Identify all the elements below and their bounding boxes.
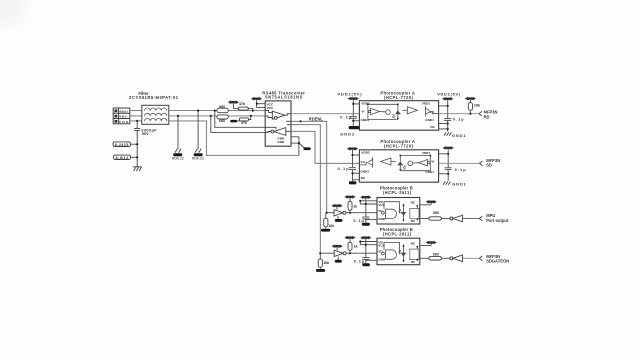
svg-text:10k: 10k [328,224,334,228]
svg-text:VDD2: VDD2 [361,102,370,106]
svg-text:SN75ALS181NS: SN75ALS181NS [265,95,303,100]
wire TB1 to filter (line B) [130,115,142,117]
power anode row4 right [420,245,431,247]
svg-text:(HCPL-2611): (HCPL-2611) [383,190,412,195]
svg-text:8-2415: 8-2415 [115,143,129,147]
TB1 pin marks [115,110,118,123]
svg-text:0.1μ: 0.1μ [353,218,364,223]
resistor R9 10k row4 [319,253,321,259]
net RDENL [291,121,327,212]
wire TB1 to filter (line A) [130,110,142,112]
svg-text:GND1: GND1 [425,118,434,122]
svg-text:RDK.22: RDK.22 [172,157,184,161]
resistor R10 1k row4 [344,236,355,240]
op-amp U1 RS485 transceiver SN75ALS181NS [265,101,291,146]
connector box FG [114,155,131,159]
capacitor C5 0.1u row3 [360,195,371,199]
svg-text:390: 390 [433,253,439,257]
wire FG to gnd rail [130,156,137,158]
power VDD2 row2 [347,147,358,151]
photocoupler U5 HCPL-2611 (row 4) [377,238,420,265]
photocoupler U4 HCPL-2611 (row 3) [377,198,420,225]
terminal arrow MFP3N SD [480,161,483,166]
inverter gate row4 right [441,257,449,259]
capacitor C3 0.1u row2 left [349,150,359,181]
capacitor 3300pF 50V [134,121,140,167]
wire driver input D from photocoupler A2 [291,131,359,163]
filter FL1 ZCYS51R5-M3PAT-01 [142,105,169,124]
svg-text:VDD1: VDD1 [422,102,431,106]
svg-text:47k: 47k [239,102,245,106]
earth ground symbol [133,167,142,171]
svg-text:GND2: GND2 [360,170,369,174]
wire VI row2 from input [439,162,480,164]
wire enable 2 to row4 [291,125,320,254]
svg-text:680: 680 [219,105,225,109]
svg-text:VCC: VCC [267,106,274,110]
buffer gate row3 [327,212,334,214]
svg-text:5DG: 5DG [119,120,129,124]
capacitor C4 0.1u row2 right [439,149,452,181]
wire line C filter to gnd run [169,121,299,155]
svg-text:VDD1(5V): VDD1(5V) [437,91,461,96]
receiver gate [265,111,291,120]
svg-text:VDD1: VDD1 [422,151,431,155]
svg-text:0.1μ: 0.1μ [340,115,352,120]
surge absorber Z2 RDK.22 [192,110,204,161]
svg-text:RD: RD [484,115,490,120]
surge absorber Z1 RDK.22 [172,115,184,161]
svg-text:VCC: VCC [378,203,385,207]
svg-text:RDENL: RDENL [309,116,324,121]
U2 internals [367,103,439,119]
svg-text:50V: 50V [142,131,149,136]
wire TB1 to filter (line C) [130,120,142,122]
ground GND1 row1 [444,132,451,135]
svg-text:GND2: GND2 [340,131,355,136]
resistor R8 390 row3 [420,218,429,220]
inverter gate row3 right [441,218,449,220]
wire line B filter to transceiver [169,115,217,117]
ground bar GND2 row2 [349,181,357,184]
capacitor C2 0.1u row1 right [439,100,452,132]
resistor R5 10k pull-up [465,97,476,101]
resistor R6 10k row3 [325,213,327,219]
resistor R7 1k row3 [344,195,355,199]
resistor R3 47k pull-up [228,100,254,111]
svg-text:VI: VI [361,110,364,114]
U3 pin labels [360,151,434,181]
node row3 input [326,212,328,214]
U4 internals [382,202,420,222]
svg-text:(HCPL-2611): (HCPL-2611) [383,232,412,237]
svg-text:1k: 1k [354,245,358,249]
photocoupler U2 HCPL-7720 (row 1) [359,101,438,131]
connector TB1 (RS485 terminal block) [113,108,130,124]
terminal arrow MFP3N RD [479,111,482,116]
resistor R1 680 (line A) [217,108,228,113]
svg-text:NC: NC [430,125,435,129]
photocoupler U3 HCPL-7720 (row 2) [359,150,438,182]
svg-text:(HCPL-7720): (HCPL-7720) [384,143,414,148]
svg-text:VO: VO [360,160,365,164]
svg-text:NC: NC [411,219,416,223]
svg-text:0.1μ: 0.1μ [338,166,350,171]
svg-text:GND1: GND1 [452,133,466,138]
filter windings [145,108,167,121]
wire driver Y to line A [215,111,265,128]
faint corner vignette [0,0,26,26]
resistor R11 390 row4 [420,257,429,259]
svg-text:GND: GND [277,140,285,144]
svg-text:47k: 47k [241,121,247,125]
TB1 terminal labels [119,109,129,123]
wire SLD to gnd rail [130,143,137,145]
svg-text:SD: SD [486,163,492,168]
resistor R4 47k pull-down [230,115,252,125]
connector box SLD [113,142,130,147]
svg-text:VI: VI [431,160,434,164]
capacitor C6 0.1u row4 [360,236,371,240]
resistor R2 680 (line B) [217,115,228,119]
svg-text:0.1μ: 0.1μ [455,167,467,172]
wire transceiver GND [291,137,305,156]
U3 internals (mirror of U2) [360,155,432,171]
svg-text:NC: NC [411,201,416,205]
svg-text:VDD2: VDD2 [361,151,370,155]
wire VO row1 to output [439,113,479,115]
svg-text:390: 390 [433,211,439,215]
power VDD1 row2 [443,146,454,150]
svg-text:ZCYS51R5-M3PAT-01: ZCYS51R5-M3PAT-01 [129,95,179,100]
svg-text:Port output: Port output [486,218,509,223]
power anode row3 right [420,204,431,206]
svg-text:0.1μ: 0.1μ [354,258,365,263]
terminal arrow MFP3N SDGATEON [479,256,482,261]
svg-text:RDK.22: RDK.22 [192,157,204,161]
svg-text:4B5+: 4B5+ [119,109,128,113]
svg-text:GND: GND [378,217,386,221]
svg-text:0.1μ: 0.1μ [453,116,465,121]
ground bar of transceiver [304,147,311,150]
node row4 input [319,252,321,254]
svg-text:680: 680 [219,119,225,123]
svg-text:(HCPL-7720): (HCPL-7720) [384,95,414,100]
terminal arrow MPU port output [479,216,482,221]
ground GND1 row2 [443,182,450,185]
svg-text:8-B12: 8-B12 [116,156,129,160]
driver gate [265,121,291,135]
wire line A filter to transceiver [169,110,217,112]
wire RO to photocoupler A1 [291,113,359,115]
svg-text:10k: 10k [323,261,329,265]
svg-text:4B5-: 4B5- [119,115,128,119]
ground bar GND2 row1 [349,126,360,129]
wire driver Z to line B [211,116,265,133]
U2 pin labels [361,102,436,130]
capacitor C1 0.1u row1 left [350,100,360,126]
svg-text:NC: NC [361,176,366,180]
node junction on line C [136,120,138,122]
power VCC of transceiver [251,97,262,101]
svg-text:10k: 10k [474,104,480,108]
svg-text:1k: 1k [353,204,357,208]
buffer gate row4 [320,252,334,254]
svg-text:VDD2(5V): VDD2(5V) [338,91,363,96]
svg-text:SDGATEON: SDGATEON [486,259,509,264]
svg-text:GND1: GND1 [452,181,466,186]
